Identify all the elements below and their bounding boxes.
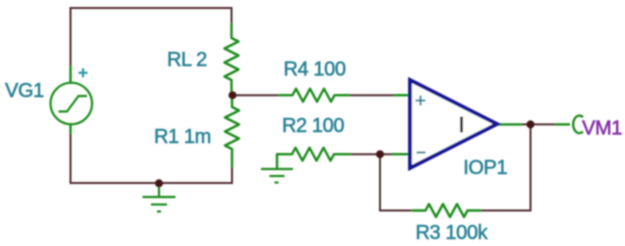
svg-text:IOP1: IOP1 <box>463 157 507 179</box>
svg-text:VG1: VG1 <box>5 80 44 102</box>
svg-text:R3 100k: R3 100k <box>416 222 489 244</box>
svg-text:RL 2: RL 2 <box>167 49 207 71</box>
svg-text:VM1: VM1 <box>582 118 622 140</box>
svg-text:R4 100: R4 100 <box>284 59 346 81</box>
svg-text:R1 1m: R1 1m <box>154 126 211 148</box>
svg-text:R2 100: R2 100 <box>282 115 344 137</box>
